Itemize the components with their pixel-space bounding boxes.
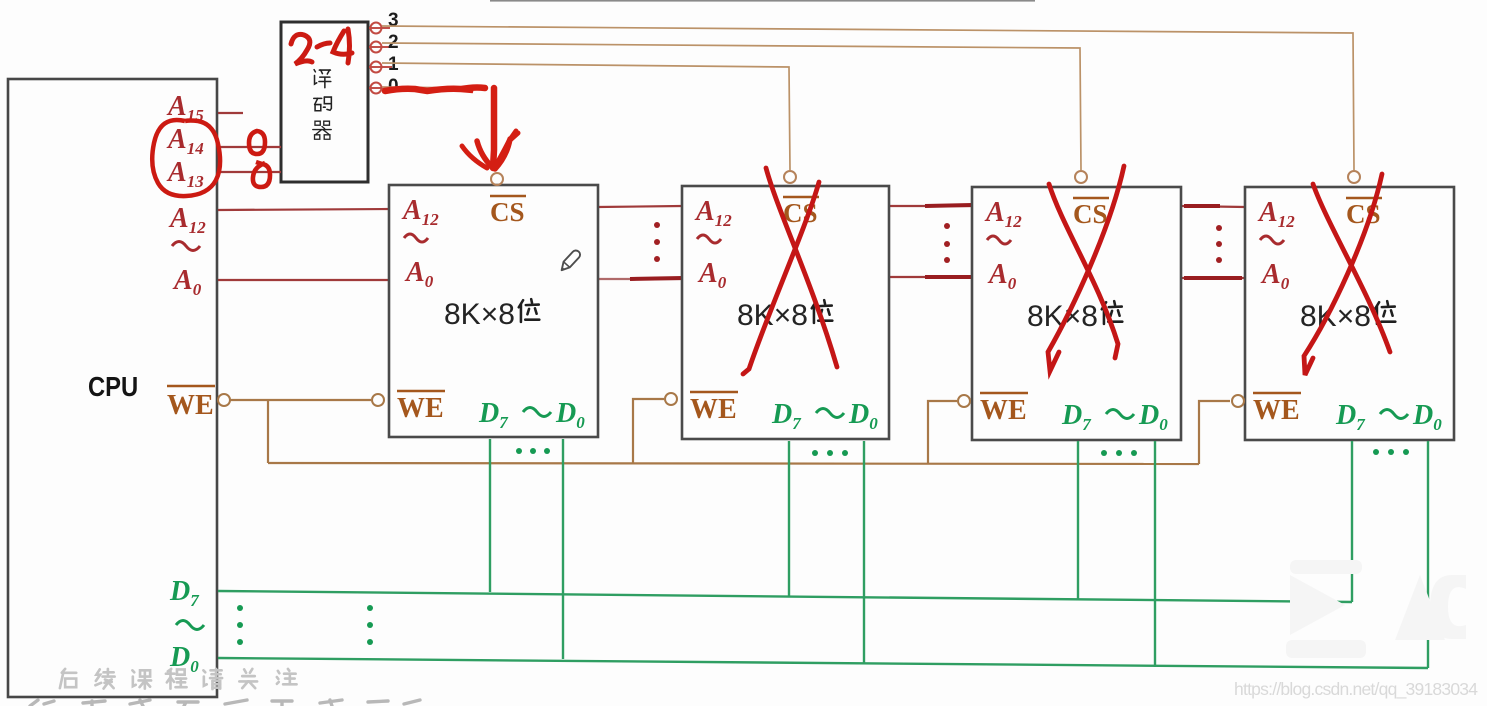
chip U2 label CS [490, 196, 526, 227]
CPU box [8, 79, 217, 697]
chip U5 label D7~D0 [1335, 400, 1442, 434]
green dots under chips [516, 448, 1409, 456]
chip U5 tilde [1260, 236, 1284, 244]
wire A0 chip1-chip2 [598, 278, 683, 279]
chip U5 label CS [1346, 198, 1382, 229]
wire decoder out1 to chip2 CS [382, 63, 790, 170]
red X over chip4 CS [1304, 174, 1390, 375]
wire WE from CPU to chip1 [218, 394, 230, 406]
chip U3 tilde [697, 235, 721, 243]
decoder U1 box [281, 22, 368, 182]
chip U5 WE bubble [1232, 395, 1244, 407]
CS bubbles [491, 173, 503, 185]
dots between chip2-chip3 [944, 223, 950, 263]
svg-text:https://blog.csdn.net/qq_39183: https://blog.csdn.net/qq_39183034 [1234, 679, 1478, 700]
decoder label 器 [313, 121, 331, 139]
chip U2 WE bubble [372, 394, 384, 406]
svg-text:CS: CS [1073, 199, 1108, 229]
chip U3 label 8K×8位 [737, 299, 832, 332]
wire WE riser to chip4 [1199, 401, 1230, 464]
chip U3 box [682, 186, 889, 439]
tilde D7~D0 (CPU) [176, 621, 204, 630]
decoder pin 2 [371, 32, 399, 53]
chip U4 tilde [987, 236, 1011, 244]
tilde A12~A0 (CPU) [172, 242, 200, 251]
wire decoder out2 to chip3 CS [382, 43, 1081, 170]
svg-text:8K×8: 8K×8 [444, 298, 515, 331]
data verticals chip3 [1077, 441, 1079, 599]
data verticals chip1 [489, 439, 491, 592]
red X over chip3 CS [1048, 166, 1124, 371]
chip U4 WE bubble [958, 395, 970, 407]
chip U3 label D7~D0 [771, 399, 878, 433]
D7 bus [218, 591, 1352, 602]
wire decoder out0 stub [382, 87, 470, 88]
chip U4 label 8K×8位 [1027, 300, 1122, 333]
wire decoder out3 to chip4 CS [382, 26, 1354, 170]
data verticals chip2 [788, 441, 790, 596]
dots between chip1-chip2 [654, 222, 660, 262]
data verticals chip4 [1351, 441, 1353, 602]
svg-text:WE: WE [167, 390, 214, 421]
chip U2 box (8K x 8) [389, 185, 598, 437]
svg-text:3: 3 [388, 10, 399, 31]
svg-text:CS: CS [490, 197, 525, 227]
top video artifact bar [490, 0, 1035, 2]
chip U5 box [1245, 187, 1454, 440]
green dots near CPU data pins [237, 605, 373, 645]
wire WE bottom bus [268, 463, 1199, 464]
handwritten 0 at A13 [253, 162, 270, 187]
chip U2 label WE [397, 391, 445, 424]
wire WE riser to chip3 [928, 401, 957, 463]
svg-text:1: 1 [388, 54, 399, 75]
decoder pin 1 [371, 54, 400, 75]
handwritten 0 at A14 [249, 131, 265, 154]
decoder pin 3 [371, 10, 399, 34]
chip U2 label D7~D0 [478, 398, 585, 432]
wire A12 chip2-chip3 [889, 205, 972, 206]
watermark line2 (cut off at bottom edge) [30, 700, 420, 706]
pencil cursor icon in chip U2 [559, 249, 582, 273]
svg-text:CPU: CPU [88, 370, 138, 402]
chip U4 label CS [1073, 198, 1109, 229]
D0 bus [218, 658, 1428, 668]
chip U4 label D7~D0 [1061, 400, 1168, 434]
pin WE (CPU) [167, 386, 215, 421]
wire A15 stub [218, 112, 243, 114]
svg-text:WE: WE [1253, 395, 1300, 426]
chip U5 label WE [1253, 393, 1301, 426]
decoder pin stubs [369, 28, 392, 88]
decoder label 译 [314, 70, 331, 88]
chip U3 label WE [690, 392, 738, 425]
chip U5 label 8K×8位 [1300, 300, 1395, 333]
svg-text:WE: WE [690, 394, 737, 425]
wire WE riser to chip2 [633, 399, 664, 463]
handwritten wire out0 to chip1 CS with arrow [385, 88, 518, 170]
chip U4 label WE [980, 393, 1028, 426]
wire A13 to decoder [218, 171, 281, 173]
wire A0 chip2-chip3 [889, 276, 972, 278]
handwritten circle around A14/A13 [152, 120, 220, 196]
wire A12 chip1-chip2 [598, 206, 682, 207]
svg-text:WE: WE [397, 393, 444, 424]
wire A14 to decoder [218, 146, 281, 148]
chip U2 label 8K×8位 [444, 298, 539, 331]
wire A0 bus CPU to chip1 [218, 279, 389, 281]
red X over chip2 CS [743, 168, 837, 374]
wire A12 bus CPU to chip1 [218, 209, 389, 210]
svg-text:WE: WE [980, 395, 1027, 426]
watermark line1: 后续课程请关注 [60, 669, 297, 689]
chip U3 label CS [783, 197, 819, 228]
dots between chip3-chip4 [1216, 225, 1222, 263]
csdn ghost logo watermark [1286, 560, 1466, 658]
chip U2 tilde [404, 234, 428, 242]
chip U4 box [972, 187, 1181, 440]
decoder pin 0 [371, 76, 399, 97]
chip U3 WE bubble [665, 393, 677, 405]
wire WE drop at junction [267, 400, 269, 463]
handwritten 2-4 annotation [291, 29, 352, 64]
wire A0 chip3-chip4 [1181, 277, 1245, 279]
decoder label 码 [314, 97, 332, 111]
wire A12 chip3-chip4 [1181, 206, 1245, 207]
